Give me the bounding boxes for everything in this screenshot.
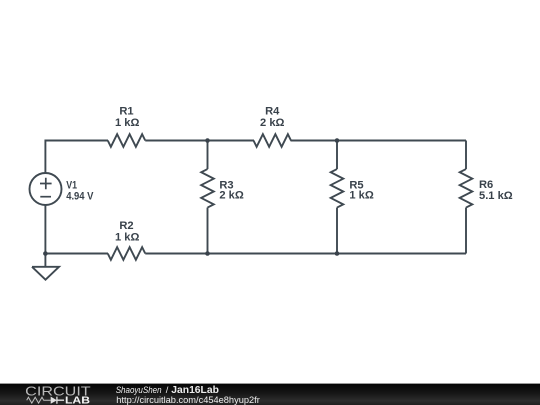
resistor R4 zigzag [254,134,292,147]
resistor R1 zigzag [108,134,146,147]
footer logo diode glyph [51,397,57,404]
svg-text:1 kΩ: 1 kΩ [349,190,373,202]
node: R5 bottom junction [335,251,340,256]
wire: bottom rail from right corner to R2 [145,253,466,255]
svg-text:2 kΩ: 2 kΩ [219,190,243,202]
voltage source V1 circle [30,173,62,205]
node: R3 top junction [205,138,210,143]
svg-text:1 kΩ: 1 kΩ [115,232,139,244]
V1 minus symbol [40,196,51,198]
svg-text:1 kΩ: 1 kΩ [115,117,139,129]
svg-text:2 kΩ: 2 kΩ [260,117,284,129]
wire: R5 top lead from top rail [336,141,338,170]
wire: R5 bottom lead to bottom rail [336,208,338,254]
wire: right column top lead into R6 [465,141,467,170]
svg-text:LAB: LAB [65,396,90,405]
footer logo resistor glyph [27,397,51,403]
resistor R3 zigzag [201,169,214,207]
svg-text:R2: R2 [119,220,133,232]
wire: bottom rail R2 to ground node [45,253,108,255]
ground symbol [32,254,59,280]
svg-text:http://circuitlab.com/c454e8hy: http://circuitlab.com/c454e8hyup2fr [116,394,259,405]
footer bar [0,384,540,405]
svg-text:R1: R1 [119,105,133,117]
node: R5 top junction [335,138,340,143]
svg-text:4.94 V: 4.94 V [66,190,94,202]
wire: top rail from top-left corner to R1 [45,141,108,174]
resistor R6 zigzag [460,169,473,207]
wire: right column R6 bottom lead to bottom rail [465,208,467,254]
svg-text:R4: R4 [265,105,280,117]
wire: R3 bottom lead to bottom rail [207,208,209,254]
wire: R3 top lead from top rail [207,141,209,170]
node: R3 bottom junction [205,251,210,256]
wire: top rail R1 to R4 (through node at R3 top) [145,140,254,142]
V1 plus symbol [40,178,52,189]
wire: top rail R4 to top-right corner [291,140,467,142]
wire: V1 bottom lead down to bottom rail [44,205,46,254]
resistor R5 zigzag [331,169,344,207]
svg-text:5.1 kΩ: 5.1 kΩ [479,190,513,202]
resistor R2 zigzag [108,247,146,260]
node: ground junction [43,251,48,256]
